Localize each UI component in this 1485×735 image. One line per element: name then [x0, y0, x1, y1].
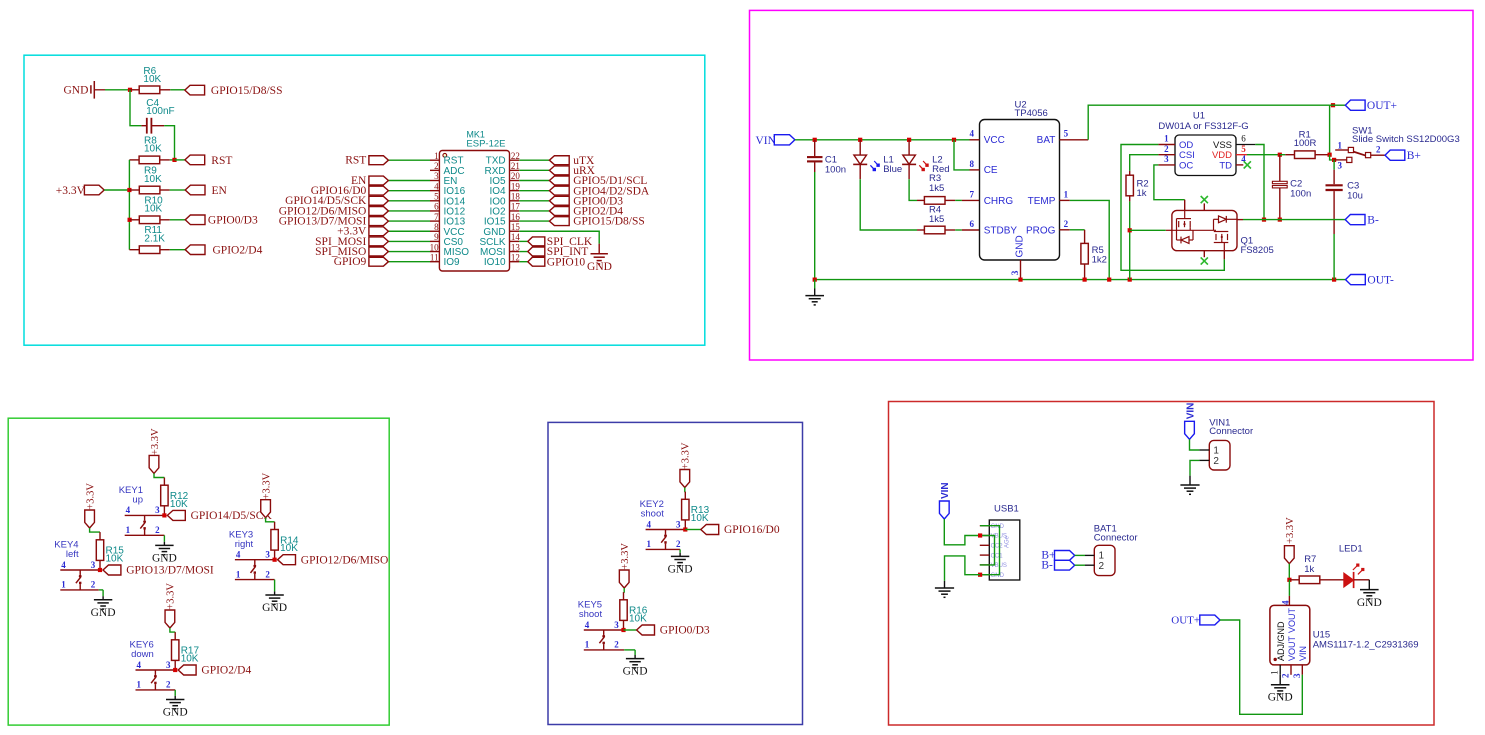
resistor R4 1k5	[917, 229, 924, 231]
svg-text:GND: GND	[1015, 235, 1026, 257]
svg-text:3: 3	[434, 171, 439, 181]
net port GPIO15/D8/SS (right of MK1)	[549, 217, 569, 226]
resistor R6 10K	[130, 89, 139, 91]
svg-text:GPIO0/D3: GPIO0/D3	[660, 625, 710, 637]
svg-text:TEMP: TEMP	[1028, 196, 1056, 207]
pin 3 CC2 of USB1	[980, 544, 990, 546]
node: junction CE branch	[952, 138, 956, 142]
wire +3.3V flag to resistor R15	[90, 528, 100, 532]
ground symbol GND (KEY5)	[626, 658, 644, 660]
svg-text:1: 1	[434, 151, 439, 161]
wire R9 to port EN	[170, 189, 186, 191]
svg-text:Slide Switch SS12D00G3: Slide Switch SS12D00G3	[1352, 134, 1460, 145]
section border: direction keys block (green)	[8, 418, 389, 725]
node: junction KEY3 pin3	[273, 558, 277, 562]
net port GPIO0/D3	[185, 215, 205, 225]
wire VIN to USB1 VBUS	[944, 519, 980, 545]
svg-text:VIN: VIN	[1298, 646, 1308, 661]
wire port GPIO13/D7/MOSI to pin 7	[388, 220, 430, 222]
node: junction R7/U15	[1287, 578, 1291, 582]
pin 9 CS0 of MK1	[430, 240, 439, 242]
svg-text:1: 1	[647, 539, 652, 549]
switch KEY4 (KEY4 left)	[60, 569, 100, 571]
svg-text:19: 19	[511, 181, 521, 191]
svg-text:10K: 10K	[691, 513, 709, 524]
wire Q1 drain to B-	[1237, 219, 1243, 221]
svg-text:10K: 10K	[106, 553, 124, 564]
wire R3 to CHRG pin	[955, 199, 962, 201]
switch KEY3 (KEY3 right)	[235, 559, 275, 561]
node: junction USB1 VBUS	[978, 533, 982, 537]
resistor R12 10K	[163, 478, 165, 486]
svg-text:2: 2	[155, 525, 160, 535]
svg-text:4: 4	[434, 181, 439, 191]
svg-text:CC1: CC1	[991, 553, 1004, 559]
svg-text:RST: RST	[211, 155, 232, 167]
svg-text:1: 1	[236, 569, 241, 579]
svg-text:1: 1	[126, 525, 131, 535]
svg-text:VIN: VIN	[1185, 403, 1196, 420]
ground symbol GND (KEY3)	[265, 594, 283, 596]
svg-text:EN: EN	[212, 185, 228, 197]
wire USB1 GND loop pins 1-6	[980, 526, 999, 575]
wire +3.3V flag to resistor R12	[154, 473, 164, 477]
svg-text:GND: GND	[262, 602, 287, 614]
svg-text:GPIO2/D4: GPIO2/D4	[213, 245, 263, 257]
pin 2 VBUS of USB1	[980, 535, 990, 537]
pin NC bottom of Q1 (no connect)	[1203, 251, 1205, 258]
svg-text:GND: GND	[64, 85, 89, 97]
wire +3.3V port to node	[104, 189, 129, 191]
svg-text:PROG: PROG	[1026, 225, 1056, 236]
svg-text:GND: GND	[668, 563, 693, 575]
switch KEY1 (KEY1 up)	[125, 514, 165, 516]
ground symbol (charger block)	[814, 280, 816, 289]
pin 1 of VIN1	[1199, 449, 1209, 451]
wire left vertical +3.3V rail (R8-R11)	[128, 160, 130, 250]
wire OUT+ to U15 VIN	[1220, 620, 1302, 714]
svg-text:20: 20	[511, 171, 521, 181]
pin 22 TXD of MK1	[510, 159, 520, 161]
resistor R15 10K	[99, 532, 101, 540]
wire pin 14 to port SPI_CLK	[519, 240, 528, 242]
net port GPIO0/D3 (KEY5)	[637, 625, 655, 635]
wire LED1 to ground	[1354, 579, 1370, 581]
wire +3.3V to R7/U15	[1288, 564, 1290, 580]
svg-text:3: 3	[1337, 160, 1342, 170]
transistor Q1 internal body diode B	[1219, 216, 1227, 223]
pin 2 ADC of MK1	[430, 169, 439, 171]
svg-text:TD: TD	[1219, 160, 1232, 171]
svg-text:14: 14	[511, 232, 521, 242]
pin 3 VIN of U15	[1301, 665, 1303, 675]
node: junction R1/SW1/C3	[1328, 153, 1332, 157]
wire RST node to port	[175, 159, 185, 161]
pin 14 SCLK of MK1	[510, 240, 520, 242]
net port SPI_CLK (right of MK1)	[528, 237, 545, 246]
wire KEY2 pin3 to port GPIO16/D0	[685, 529, 701, 531]
svg-text:GPIO15/D8/SS: GPIO15/D8/SS	[573, 216, 645, 228]
svg-text:1k: 1k	[1137, 188, 1147, 199]
svg-text:2: 2	[1164, 144, 1169, 154]
svg-text:100nF: 100nF	[146, 106, 174, 117]
svg-text:3: 3	[1010, 270, 1020, 275]
wire pin 20 to port GPIO5/D1/SCL	[519, 180, 549, 182]
wire +3.3V flag to resistor R13	[684, 488, 687, 492]
net port GPIO2/D4	[185, 245, 205, 255]
wire Q1 source link	[1166, 229, 1172, 231]
svg-text:4: 4	[126, 505, 131, 515]
pin 4 IO16 of MK1	[430, 190, 439, 192]
svg-text:CC2: CC2	[991, 544, 1004, 550]
wire CSI to R2	[1130, 155, 1159, 171]
svg-text:18: 18	[511, 192, 521, 202]
node: junction KEY2 pin3	[683, 527, 687, 531]
power flag +3.3V (KEY4)	[85, 510, 95, 528]
net port +3.3V (left of MK1)	[369, 227, 389, 236]
svg-text:shoot: shoot	[641, 509, 665, 520]
svg-text:17: 17	[511, 202, 521, 212]
node: junction VSS/B-	[1262, 218, 1266, 222]
ground symbol (USB1)	[935, 587, 954, 589]
pin 1 ADJ/GND of U15	[1279, 665, 1281, 675]
regulator U15 AMS1117-1.2 body	[1270, 605, 1310, 665]
svg-text:GPIO0/D3: GPIO0/D3	[208, 215, 258, 227]
svg-text:9: 9	[434, 232, 439, 242]
pin 3 OC of U1	[1158, 164, 1175, 166]
svg-text:2: 2	[1281, 673, 1291, 678]
wire KEY6 pin2 to ground	[174, 690, 176, 696]
svg-text:1: 1	[1269, 670, 1279, 675]
svg-text:GPIO9: GPIO9	[334, 256, 367, 268]
net port uRX (right of MK1)	[549, 166, 569, 175]
svg-text:12: 12	[511, 252, 520, 262]
wire R2 to ground bus	[1129, 201, 1131, 279]
wire pin 17 to port GPIO2/D4	[519, 210, 549, 212]
wire TEMP to ground bus	[1070, 200, 1109, 279]
svg-text:13: 13	[511, 242, 521, 252]
svg-text:+3.3V: +3.3V	[1285, 517, 1296, 544]
net port B+	[1385, 150, 1405, 160]
net port EN	[185, 185, 205, 195]
wire port GPIO9 to pin 11	[388, 261, 430, 263]
wire L1 to R4	[860, 179, 917, 230]
pin 7 IO13 of MK1	[430, 220, 439, 222]
net port SPI_MISO (left of MK1)	[369, 247, 389, 256]
svg-text:10K: 10K	[143, 74, 161, 85]
svg-text:B+: B+	[1407, 150, 1421, 162]
pin 6 VSS of U1	[1236, 144, 1255, 146]
svg-text:5: 5	[1064, 129, 1069, 139]
net port VIN (USB1)	[939, 501, 949, 519]
wire pin 15 GND to ground	[519, 231, 599, 243]
svg-text:OC: OC	[1179, 160, 1193, 171]
pin 8 CE of U2	[970, 169, 980, 171]
pin 5 IO14 of MK1	[430, 200, 439, 202]
svg-text:4: 4	[647, 519, 652, 529]
svg-text:ESP-12E: ESP-12E	[466, 138, 505, 149]
svg-text:10K: 10K	[144, 174, 162, 185]
svg-text:2: 2	[676, 539, 681, 549]
svg-text:3: 3	[676, 519, 681, 529]
net port SPI_INT (right of MK1)	[528, 247, 545, 256]
svg-text:10: 10	[430, 242, 440, 252]
svg-text:1: 1	[1099, 551, 1105, 562]
svg-text:4: 4	[136, 660, 141, 670]
svg-text:Connector: Connector	[1209, 426, 1253, 437]
wire USB1 GND to ground	[945, 556, 981, 581]
resistor R5 1k2 (PROG)	[1070, 229, 1085, 231]
wire port GPIO12/D6/MISO to pin 6	[388, 210, 430, 212]
pin 1 RST of MK1	[430, 159, 439, 161]
svg-text:down: down	[131, 649, 154, 660]
svg-text:100n: 100n	[825, 165, 846, 176]
node: junction bus C1	[813, 278, 817, 282]
wire B- to BAT1 pin2	[1075, 564, 1085, 566]
svg-text:DW01A or FS312F-G: DW01A or FS312F-G	[1158, 121, 1248, 132]
svg-text:10K: 10K	[181, 653, 199, 664]
wire CE branch	[954, 140, 970, 170]
net port GPIO12/D6/MISO (KEY3)	[278, 555, 296, 565]
pin 6 IO12 of MK1	[430, 210, 439, 212]
power flag +3.3V (KEY6)	[165, 610, 175, 628]
wire OUT+ rail to port	[1330, 104, 1346, 106]
IC U2 TP4056 body	[980, 120, 1060, 261]
svg-text:GPIO12/D6/MISO: GPIO12/D6/MISO	[301, 554, 389, 566]
section border: ESP-12E module block (cyan)	[24, 55, 705, 345]
node: junction SW1 pin3/C3	[1332, 158, 1336, 162]
svg-text:+3.3V: +3.3V	[620, 543, 631, 570]
svg-text:CE: CE	[984, 165, 998, 176]
svg-text:4: 4	[1280, 600, 1290, 605]
wire KEY1 pin2 to ground	[163, 535, 165, 542]
wire VIN to connector pin1	[1190, 439, 1200, 450]
ground symbol GND (LED1)	[1360, 589, 1379, 591]
wire OC to Q1 gate1	[1154, 165, 1185, 200]
net port GPIO2/D4 (KEY6)	[178, 665, 196, 675]
wire OD to Q1 gate2	[1121, 145, 1224, 271]
IC U1 DW01A body	[1175, 135, 1236, 176]
svg-text:ADJ/GND: ADJ/GND	[1276, 621, 1286, 661]
node: junction GND / R6 / C4	[128, 88, 132, 92]
wire pin 21 to port uRX	[519, 169, 549, 171]
svg-text:shoot: shoot	[579, 609, 603, 620]
svg-text:GND: GND	[587, 261, 612, 273]
wire junction to U15 VOUT pin4	[1288, 580, 1290, 596]
node: junction RST net	[172, 158, 176, 162]
svg-text:2: 2	[434, 161, 439, 171]
svg-text:B-: B-	[1041, 559, 1053, 571]
svg-text:VIN: VIN	[756, 135, 777, 147]
svg-text:2: 2	[614, 640, 619, 650]
pin 1 OD of U1	[1158, 144, 1175, 146]
pin 5 VDD of U1	[1236, 154, 1247, 156]
pin 16 IO15 of MK1	[510, 220, 520, 222]
svg-text:GPIO13/D7/MOSI: GPIO13/D7/MOSI	[126, 565, 214, 577]
wire port SPI_MOSI to pin 9	[388, 240, 430, 242]
svg-text:15: 15	[511, 222, 521, 232]
svg-text:1: 1	[1213, 445, 1219, 456]
wire C4 to RST node	[164, 126, 174, 160]
net port RST (left of MK1)	[369, 156, 389, 165]
capacitor C2 100n	[1279, 155, 1281, 182]
power flag +3.3V (KEY5)	[619, 570, 629, 588]
power flag +3.3V (KEY3)	[261, 500, 271, 518]
resistor R11 2.1K	[129, 249, 139, 251]
svg-text:1: 1	[136, 680, 141, 690]
ground symbol GND (KEY4)	[94, 599, 112, 601]
svg-text:VOUT: VOUT	[1287, 607, 1297, 633]
svg-text:GND: GND	[152, 552, 177, 564]
svg-text:2: 2	[1099, 561, 1105, 572]
pin 4 CC1 of USB1	[980, 554, 990, 556]
wire port +3.3V to pin 8	[388, 230, 430, 232]
svg-text:3: 3	[91, 560, 96, 570]
wire pin 13 to port SPI_INT	[519, 251, 528, 253]
svg-text:6: 6	[434, 202, 439, 212]
svg-text:GND: GND	[91, 607, 116, 619]
resistor R1 100R	[1280, 154, 1286, 156]
svg-text:GPIO16/D0: GPIO16/D0	[724, 524, 780, 536]
svg-text:1: 1	[1164, 134, 1169, 144]
pin 10 MISO of MK1	[430, 251, 439, 253]
node: junction bus R5	[1083, 278, 1087, 282]
svg-text:GND: GND	[1268, 692, 1293, 704]
wire BAT to OUT+ rail	[1088, 105, 1329, 140]
node: junction C2/B-	[1278, 218, 1282, 222]
wire pin 22 to port uTX	[519, 159, 549, 161]
resistor R3 1k5	[917, 199, 924, 201]
svg-text:16: 16	[511, 212, 521, 222]
resistor R9 10K	[129, 189, 139, 191]
svg-text:RST: RST	[345, 155, 366, 167]
connector USB1 body	[989, 520, 1020, 580]
svg-text:3: 3	[265, 550, 270, 560]
net port uTX (right of MK1)	[549, 156, 569, 165]
wire GND flag to node	[105, 89, 128, 91]
svg-text:6: 6	[1241, 134, 1246, 144]
svg-text:+3.3V: +3.3V	[166, 583, 177, 610]
svg-text:2: 2	[1064, 219, 1069, 229]
wire node to C4	[130, 90, 141, 126]
node: junction KEY6 pin3	[173, 668, 177, 672]
svg-text:FS8205: FS8205	[1241, 245, 1274, 256]
LED L1 Blue	[859, 140, 861, 155]
net port GPIO12/D6/MISO (left of MK1)	[369, 207, 389, 216]
svg-text:1k2: 1k2	[1092, 255, 1107, 266]
svg-text:GPIO2/D4: GPIO2/D4	[201, 665, 251, 677]
net port GPIO2/D4 (right of MK1)	[549, 207, 569, 216]
node: junction GPIO0/D3 row	[128, 218, 132, 222]
svg-text:Connector: Connector	[1094, 532, 1138, 543]
svg-text:GPIO10: GPIO10	[547, 256, 586, 268]
svg-text:AMS1117-1.2_C2931369: AMS1117-1.2_C2931369	[1313, 639, 1419, 650]
svg-text:Blue: Blue	[883, 164, 902, 175]
wire port SPI_MISO to pin 10	[388, 251, 430, 253]
wire pin 18 to port GPIO0/D3	[519, 200, 549, 202]
svg-text:left: left	[66, 549, 79, 560]
pin 2 CSI of U1	[1158, 154, 1175, 156]
svg-text:GND: GND	[1357, 597, 1382, 609]
node: junction L2	[907, 138, 911, 142]
wire L2 to R3	[909, 179, 917, 200]
wire VDD row	[1247, 154, 1280, 156]
net port GPIO9 (left of MK1)	[369, 257, 389, 266]
svg-text:2: 2	[1376, 145, 1381, 155]
resistor R10 10K	[130, 219, 140, 221]
net port GPIO16/D0 (KEY2)	[701, 525, 719, 535]
ground symbol (MK1 GND pin)	[591, 253, 608, 255]
net port B-	[1345, 215, 1365, 225]
wire OUT+ rail to R1/SW1	[1329, 105, 1331, 155]
svg-text:8: 8	[434, 222, 439, 232]
resistor R16 10K	[623, 592, 625, 600]
svg-text:4: 4	[236, 550, 241, 560]
wire port GPIO14/D5/SCK to pin 5	[388, 200, 430, 202]
svg-text:21: 21	[511, 161, 520, 171]
svg-text:3: 3	[1164, 154, 1169, 164]
pin 15 GND of MK1	[510, 230, 520, 232]
power flag +3.3V (LED1)	[1284, 546, 1294, 564]
ground symbol GND (KEY1)	[155, 544, 173, 546]
node: junction R2/Q1 source	[1128, 228, 1132, 232]
svg-text:right: right	[235, 539, 254, 550]
wire junction to C3 branch	[1330, 155, 1335, 160]
wire +3.3V flag to resistor R14	[266, 518, 275, 522]
wire +3.3V flag to resistor R16	[623, 588, 626, 592]
svg-text:10K: 10K	[144, 204, 162, 215]
svg-text:6: 6	[969, 219, 974, 229]
LED L2 Red	[908, 140, 910, 155]
svg-text:GND: GND	[163, 707, 188, 719]
pin 1 GND of USB1	[980, 525, 990, 527]
wire Q1 left pin	[1130, 229, 1166, 231]
svg-text:+3.3V: +3.3V	[261, 472, 272, 499]
svg-text:4: 4	[969, 129, 974, 139]
svg-text:10K: 10K	[144, 144, 162, 155]
wire port GPIO16/D0 to pin 4	[388, 190, 430, 192]
node: junction bus C3	[1332, 278, 1336, 282]
wire C1 to ground bus	[814, 172, 816, 280]
svg-text:B-: B-	[1367, 214, 1379, 226]
wire R8 to RST node	[170, 159, 175, 161]
LED LED1	[1344, 573, 1354, 587]
net port GPIO5/D1/SCL (right of MK1)	[549, 176, 569, 185]
node: junction bus U2 GND	[1018, 278, 1022, 282]
ground symbol GND (U15)	[1271, 684, 1290, 686]
node: junction USB1 GND	[978, 573, 982, 577]
wire pin 19 to port GPIO4/D2/SDA	[519, 190, 549, 192]
pin gate2 of Q1	[1223, 251, 1225, 260]
svg-text:10u: 10u	[1347, 190, 1363, 201]
pin NC top of Q1 (no connect)	[1203, 203, 1205, 210]
svg-text:7: 7	[969, 189, 974, 199]
pin 11 IO9 of MK1	[430, 261, 439, 263]
wire KEY5 pin2 to ground	[634, 650, 636, 655]
pin 8 VCC of MK1	[430, 230, 439, 232]
net port GPIO0/D3 (right of MK1)	[549, 196, 569, 205]
svg-text:LED1: LED1	[1339, 544, 1363, 555]
net port VIN (VIN1 connector)	[1185, 421, 1195, 439]
pin 1 of BAT1	[1085, 554, 1094, 556]
resistor R8 10K	[129, 159, 139, 161]
wire C3 to ground bus	[1333, 234, 1335, 280]
net port GPIO15/D8/SS	[185, 85, 205, 95]
wire U15 ADJ to ground	[1279, 675, 1281, 685]
svg-text:3: 3	[166, 660, 171, 670]
pin 5 VBUS of USB1	[980, 564, 990, 566]
ground symbol (VIN1)	[1180, 484, 1199, 486]
